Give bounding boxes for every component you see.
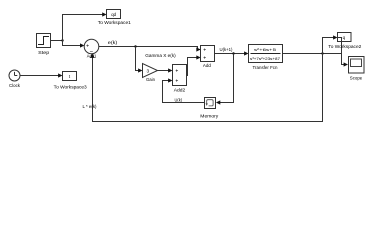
arrowhead into Add2 input1	[168, 68, 172, 72]
svg-text:Transfer Fcn: Transfer Fcn	[253, 65, 278, 70]
memory block Memory	[205, 98, 216, 109]
svg-text:Add2: Add2	[174, 87, 186, 92]
svg-text:Clock: Clock	[9, 83, 21, 88]
wire junction up to To Workspace1	[63, 15, 104, 41]
step source Step	[37, 34, 51, 48]
wire Gain to Add2 input1	[158, 70, 170, 72]
scope block Scope	[349, 57, 365, 74]
svg-text:Scope: Scope	[350, 76, 363, 81]
svg-text:+: +	[86, 43, 89, 49]
wire Add2 output to Add input2	[187, 58, 198, 76]
arrowhead into To Workspace3	[58, 73, 62, 77]
svg-text:−: −	[90, 49, 94, 55]
svg-text:qd: qd	[111, 12, 116, 17]
arrowhead into Scope	[344, 62, 348, 66]
svg-text:+: +	[203, 47, 206, 53]
svg-text:+: +	[175, 68, 178, 74]
svg-text:s³+7s²+23s+87: s³+7s²+23s+87	[250, 56, 281, 61]
junction dot on U(k+1) wire	[232, 52, 234, 54]
to-workspace block To Workspace3 (t)	[63, 72, 77, 81]
junction dot at Step branch	[61, 39, 63, 41]
clock source Clock	[9, 70, 20, 81]
svg-text:e(k): e(k)	[108, 40, 118, 45]
svg-text:U(k): U(k)	[175, 97, 183, 102]
svg-text:+: +	[203, 55, 206, 61]
wire e(k) from Add1 to Add input 1	[99, 47, 200, 50]
to-workspace block To Workspace1 (qd)	[107, 10, 121, 19]
svg-text:Gamma X e(k): Gamma X e(k)	[145, 53, 176, 58]
wire Step output to junction	[51, 40, 63, 42]
svg-text:To Workspace1: To Workspace1	[98, 20, 132, 25]
arrowhead into Add input2	[196, 55, 200, 59]
junction dot on e(k) wire	[134, 45, 136, 47]
wire Clock to To Workspace3	[20, 75, 59, 77]
arrowhead into Transfer Fcn	[244, 51, 248, 55]
svg-text:s²+6s+5: s²+6s+5	[254, 47, 277, 52]
wire Add output to Transfer Fcn	[215, 53, 246, 55]
junction dot main line	[321, 52, 323, 54]
svg-text:+: +	[175, 78, 178, 84]
to-workspace block To Workspace2 (q)	[338, 33, 352, 42]
svg-text:3: 3	[147, 68, 150, 73]
gain block Gain	[143, 64, 158, 78]
svg-text:U(k+1): U(k+1)	[220, 47, 233, 52]
svg-text:L * e(k): L * e(k)	[83, 104, 97, 109]
arrowhead into Gain	[138, 68, 142, 72]
arrowhead into To Workspace1	[102, 12, 106, 16]
svg-text:Memory: Memory	[200, 114, 219, 119]
wire stub through To Workspace2 down to Scope elbow	[338, 38, 345, 65]
arrowhead into Add2 input2	[168, 78, 172, 82]
wire Transfer Fcn output main line	[283, 53, 342, 55]
sum block Add1	[84, 39, 99, 55]
svg-text:Gain: Gain	[146, 77, 155, 82]
svg-text:To Workspace2: To Workspace2	[328, 44, 362, 49]
svg-text:Add: Add	[203, 63, 211, 68]
arrowhead into To Workspace2	[333, 35, 337, 39]
wire e(k) junction down to Gain	[136, 47, 140, 71]
sum block Add2	[173, 65, 187, 86]
arrowhead into Add input1	[196, 47, 200, 51]
svg-text:To Workspace3: To Workspace3	[54, 85, 88, 90]
sum block Add	[201, 46, 215, 62]
wire up from junction to To Workspace2	[323, 38, 335, 54]
arrowhead into Add1	[80, 43, 84, 47]
wire junction down to sum Add1	[63, 41, 82, 46]
wire Memory output to Add2 input2	[163, 81, 205, 103]
wire U(k+1) junction down to Memory input	[219, 54, 233, 103]
transfer function block Transfer Fcn	[249, 45, 283, 63]
arrowhead into Memory (pointing left)	[216, 100, 220, 104]
arrowhead feedback into Add1 bottom (pointing up)	[90, 53, 95, 58]
wire feedback: junction down, across bottom, up into Add1	[93, 54, 323, 122]
svg-text:Step: Step	[38, 50, 50, 55]
